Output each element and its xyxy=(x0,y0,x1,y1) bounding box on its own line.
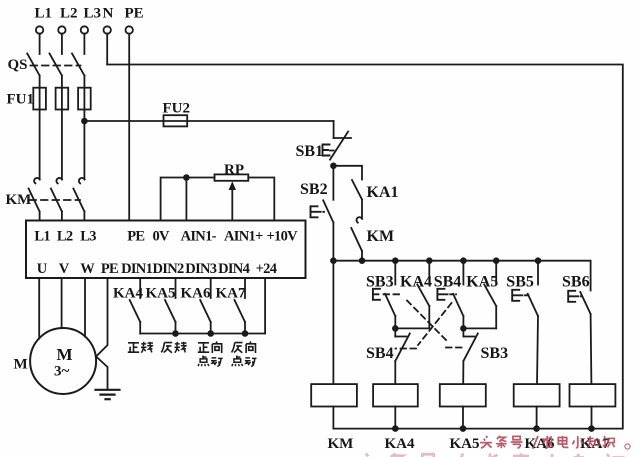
ground symbol xyxy=(96,390,120,399)
button SB3 NO xyxy=(385,294,395,329)
inverter box xyxy=(26,221,306,279)
button SB1 NC contact xyxy=(330,132,351,160)
svg-text:KM: KM xyxy=(6,192,32,208)
svg-text:L3: L3 xyxy=(80,229,96,245)
svg-text:KM: KM xyxy=(367,228,395,245)
wire RP left lead xyxy=(161,178,215,221)
svg-text:SB4: SB4 xyxy=(366,345,394,362)
svg-text:PE: PE xyxy=(125,6,144,22)
contactor KM pole 1 xyxy=(29,178,40,221)
wire SB4 stub xyxy=(462,261,464,285)
dashed interlock SB4 diagonal xyxy=(418,303,452,345)
fuse FU1 pole 2 xyxy=(56,88,69,110)
wire DIN3 stub xyxy=(210,278,212,298)
svg-text:SB2: SB2 xyxy=(300,181,328,198)
switch QS pole 2 xyxy=(50,54,62,180)
wire SB1 drop xyxy=(333,121,335,138)
svg-text:DIN4: DIN4 xyxy=(218,261,249,277)
coil KA5 xyxy=(440,384,486,406)
contact KA1 xyxy=(352,180,362,218)
wire merge left group xyxy=(395,327,429,329)
button SB4 NO xyxy=(453,294,463,329)
node bus-KA1 junction xyxy=(360,258,365,263)
svg-text:SB5: SB5 xyxy=(506,274,534,291)
node L1 terminal xyxy=(36,26,43,54)
wire KA6 coil bottom xyxy=(536,407,538,429)
wire DIN1 stub xyxy=(139,278,141,298)
svg-text:DIN1: DIN1 xyxy=(121,261,152,277)
svg-text:+24: +24 xyxy=(256,261,277,277)
contact KA5 aux xyxy=(484,285,496,329)
svg-text:V: V xyxy=(59,261,70,277)
svg-text:L2: L2 xyxy=(60,6,78,22)
potentiometer RP body xyxy=(215,174,249,180)
wire W phase to motor xyxy=(84,278,86,337)
wire N top line xyxy=(107,65,623,429)
coil KA4 xyxy=(373,384,418,406)
svg-text:SB1: SB1 xyxy=(296,143,324,160)
RP wiper arrow xyxy=(229,181,236,220)
actuator E of SB2 xyxy=(311,206,325,217)
svg-text:PE: PE xyxy=(101,261,118,277)
switch QS pole 3 xyxy=(72,54,84,180)
svg-text:FU2: FU2 xyxy=(163,101,191,117)
wire U phase to motor xyxy=(38,278,40,339)
contactor KM pole 3 xyxy=(73,178,84,221)
dashed interlock SB3 diagonal xyxy=(407,301,446,341)
svg-text:3~: 3~ xyxy=(54,364,70,380)
svg-text:KA6: KA6 xyxy=(181,286,212,302)
svg-text:KA1: KA1 xyxy=(367,184,399,201)
contact KA4 aux xyxy=(417,285,429,329)
switch QS pole 1 xyxy=(27,54,39,180)
actuator E of SB1 xyxy=(323,145,330,156)
wire KA5 coil bottom xyxy=(462,407,464,429)
button SB2 NO contact xyxy=(323,166,333,384)
fuse FU2 xyxy=(164,115,188,126)
svg-text:PE: PE xyxy=(127,229,144,245)
svg-text:DIN2: DIN2 xyxy=(153,261,184,277)
wire KA4 coil bottom xyxy=(394,407,396,429)
node bus SB3 xyxy=(393,258,398,263)
label zhengzhuan (forward) xyxy=(128,342,153,353)
motor M circle xyxy=(30,328,96,394)
svg-text:+10V: +10V xyxy=(267,229,299,245)
wire KA4 stub xyxy=(428,261,430,283)
svg-text:SB6: SB6 xyxy=(562,274,590,291)
node L3 terminal xyxy=(81,26,88,54)
svg-text:SB3: SB3 xyxy=(366,274,394,291)
watermark row2 clipped fragment xyxy=(357,453,624,457)
actuator E of SB6 xyxy=(568,291,582,302)
QS linkage dashed xyxy=(31,65,81,67)
wire KA5 stub xyxy=(495,261,497,283)
wire AIN1- drop xyxy=(185,178,187,221)
dashed interlock SB3 horizontal xyxy=(384,293,403,295)
svg-text:0V: 0V xyxy=(153,229,171,245)
node merge right xyxy=(461,326,466,331)
svg-text:KA5: KA5 xyxy=(146,286,176,302)
KM linkage dashed xyxy=(30,199,81,201)
node bottom KA4 xyxy=(393,426,398,431)
label diandong (jog line2) xyxy=(198,356,223,367)
button SB3 NC interlock xyxy=(463,328,478,384)
label zhengxiang (forward jog line1) xyxy=(198,342,222,353)
button SB5 NO xyxy=(528,294,538,384)
node PE terminal xyxy=(126,26,133,220)
svg-text:SB4: SB4 xyxy=(434,274,462,291)
node SB1 bottom junction xyxy=(331,163,336,168)
contactor KM pole 2 xyxy=(51,178,62,221)
wire DIN2 stub xyxy=(175,278,177,298)
button SB6 NO xyxy=(580,292,591,384)
wire SB3 stub xyxy=(394,261,396,285)
svg-text:L1: L1 xyxy=(35,6,53,22)
svg-text:KA5: KA5 xyxy=(450,436,480,452)
wire PE drop to motor frame xyxy=(96,278,107,357)
node FU2 tap junction xyxy=(82,119,87,124)
node bottom KA7 xyxy=(589,426,594,431)
coil KA6 xyxy=(514,384,560,406)
dashed interlock SB4 tail xyxy=(396,348,417,350)
node junction DIN2 xyxy=(173,331,178,336)
wire KM coil bottom xyxy=(332,407,334,429)
label fanxiang (reverse jog line1) xyxy=(232,342,256,353)
wire DIN4 stub xyxy=(244,278,246,298)
node bottom KA5 xyxy=(461,426,466,431)
node junction DIN3 xyxy=(208,331,213,336)
contact KA4 (DIN1) xyxy=(130,300,141,334)
coil KM xyxy=(311,384,357,406)
svg-text:KA5: KA5 xyxy=(466,274,498,291)
svg-text:L1: L1 xyxy=(34,229,50,245)
actuator E of SB4 xyxy=(437,289,456,300)
svg-text:KA4: KA4 xyxy=(113,286,144,302)
svg-text:SB3: SB3 xyxy=(481,345,509,362)
actuator E of SB5 xyxy=(512,290,529,301)
wire RP right lead xyxy=(248,178,274,221)
wire motor frame to earth xyxy=(96,357,107,390)
svg-text:M: M xyxy=(14,357,28,373)
svg-text:QS: QS xyxy=(8,57,28,73)
node N terminal xyxy=(104,26,111,64)
node junction DIN4 xyxy=(243,331,248,336)
dashed interlock SB3 tail xyxy=(446,347,466,349)
node bottom KA6 xyxy=(534,426,539,431)
node bus SB4 xyxy=(461,258,466,263)
svg-text:KA7: KA7 xyxy=(216,286,247,302)
contact KA7 (DIN4) xyxy=(235,300,246,334)
contact KA6 (DIN3) xyxy=(200,300,211,334)
wire merge right group xyxy=(463,327,496,329)
watermark row1 toutiaohao/shuidianxiaozhishi xyxy=(480,436,630,449)
svg-text:W: W xyxy=(80,261,95,277)
contact KA5 (DIN2) xyxy=(165,300,176,334)
wire SB5 stub xyxy=(537,261,539,285)
actuator E of SB3 xyxy=(373,289,380,300)
node RP 0V junction xyxy=(184,175,189,180)
svg-text:U: U xyxy=(37,261,48,277)
fuse FU1 pole 3 xyxy=(78,88,91,110)
label fanzhuan (reverse) xyxy=(161,342,186,353)
svg-text:N: N xyxy=(103,6,114,22)
svg-text:DIN3: DIN3 xyxy=(185,261,216,277)
wire control bus xyxy=(333,261,590,291)
node bus SB5 xyxy=(536,258,541,263)
node bus-SB2 junction xyxy=(331,258,336,263)
wire branch to KA1 xyxy=(333,166,362,180)
node bus KA4 xyxy=(427,258,432,263)
coil KA7 xyxy=(570,384,616,406)
wire DIN common bus xyxy=(140,333,265,335)
wire V phase to motor xyxy=(61,278,63,328)
svg-text:L2: L2 xyxy=(57,229,73,245)
svg-text:L3: L3 xyxy=(84,6,102,22)
contact KM auxiliary xyxy=(351,217,362,261)
wire FU2 line xyxy=(84,120,333,122)
wire KA7 coil bottom xyxy=(591,407,593,429)
svg-text:KM: KM xyxy=(328,436,354,452)
node merge left xyxy=(393,326,398,331)
svg-text:AIN1+: AIN1+ xyxy=(224,229,263,245)
wire +24 drop xyxy=(264,278,266,334)
svg-text:KA4: KA4 xyxy=(385,436,416,452)
node L2 terminal xyxy=(58,26,65,54)
svg-text:FU1: FU1 xyxy=(7,92,35,108)
node bus KA5 xyxy=(494,258,499,263)
button SB4 NC interlock xyxy=(395,328,410,384)
svg-text:M: M xyxy=(57,345,73,364)
svg-text:KA4: KA4 xyxy=(400,274,432,291)
svg-text:RP: RP xyxy=(224,162,244,178)
svg-text:AIN1-: AIN1- xyxy=(181,229,217,245)
fuse FU1 pole 1 xyxy=(33,88,46,110)
label diandong2 (jog line2) xyxy=(232,356,257,367)
